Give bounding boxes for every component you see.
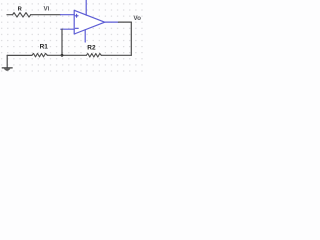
wire: R1 to junction (47, 54, 62, 56)
op-amp U1 (61, 0, 119, 42)
svg-text:R1: R1 (40, 43, 49, 50)
svg-text:R2: R2 (87, 45, 96, 52)
ground (2, 55, 12, 70)
wire: Vo corner down to feedback bottom rail (130, 22, 132, 55)
wire: op-amp output to corner (node Vo) (119, 21, 132, 23)
op-amp U1 negative supply pin (84, 30, 86, 42)
svg-text:Vi: Vi (44, 5, 50, 12)
ground earth wedge (4, 69, 10, 71)
resistor R1 (32, 53, 47, 57)
op-amp U1 plus marking (75, 14, 78, 17)
op-amp U1 positive supply pin (85, 0, 87, 15)
ground top bar (2, 67, 12, 69)
wire: feedback riser junction to inverting input (61, 29, 63, 55)
op-amp U1 body (74, 10, 105, 34)
wire: bottom rail R2 to Vo riser (101, 54, 131, 56)
resistor R (13, 13, 31, 18)
resistor R2 (86, 54, 101, 58)
wire: R to op-amp noninverting input (node Vi) (31, 14, 61, 16)
op-amp U1 minus marking (75, 27, 78, 29)
wire: input lead left of R (7, 14, 13, 16)
svg-text:Vo: Vo (133, 15, 141, 22)
wire: ground to R1 (7, 54, 32, 56)
ground stem (6, 55, 8, 67)
op-amp U1 noninverting input pin (61, 14, 75, 16)
op-amp U1 inverting input pin (61, 28, 74, 30)
wire: junction to R2 (62, 54, 86, 56)
op-amp U1 output pin (105, 21, 119, 23)
node: feedback junction (61, 54, 64, 57)
